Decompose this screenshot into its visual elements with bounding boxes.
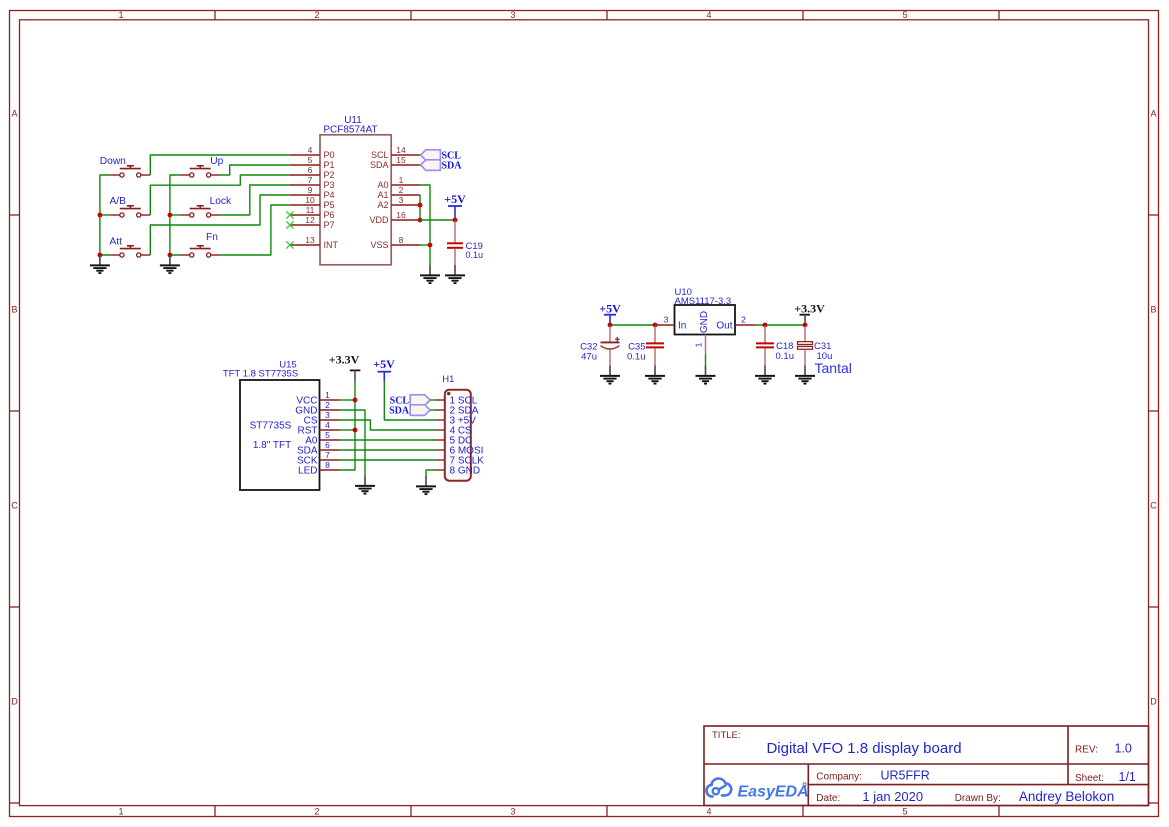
junction left rail at Att row xyxy=(98,253,103,258)
pushbutton A/B xyxy=(110,206,150,217)
ground symbol right rail xyxy=(160,255,180,273)
svg-text:7: 7 xyxy=(308,175,313,185)
wire ground rail left column (Down/A·B/Att) xyxy=(100,175,110,255)
svg-text:4: 4 xyxy=(706,10,711,20)
pushbutton Down xyxy=(110,166,150,177)
wire VDD to +5V xyxy=(420,219,455,221)
svg-text:VDD: VDD xyxy=(369,215,389,225)
svg-text:SDA: SDA xyxy=(370,160,389,170)
wire net Up to P1 (pin 5) xyxy=(220,165,290,175)
svg-text:0.1u: 0.1u xyxy=(627,352,646,363)
svg-text:14: 14 xyxy=(396,145,406,155)
svg-text:7: 7 xyxy=(325,450,330,460)
svg-text:10: 10 xyxy=(305,195,315,205)
capacitor C18 xyxy=(756,326,774,366)
connector H1 body xyxy=(445,390,471,481)
junction +5V / C19 xyxy=(453,218,458,223)
net flag SCL at H1 pin 1 xyxy=(390,395,430,407)
svg-text:4: 4 xyxy=(308,145,313,155)
svg-text:6: 6 xyxy=(308,165,313,175)
svg-text:8 GND: 8 GND xyxy=(450,465,481,476)
svg-text:9: 9 xyxy=(308,185,313,195)
junction right rail at Lock row xyxy=(168,213,173,218)
svg-text:P6: P6 xyxy=(324,210,335,220)
label Company: xyxy=(816,772,862,783)
wire net Att to P4 (pin 9) xyxy=(150,195,290,255)
wire U15 CS to H1 pin 4 xyxy=(340,420,436,430)
svg-text:Sheet:: Sheet: xyxy=(1075,773,1104,784)
svg-text:P3: P3 xyxy=(324,180,335,190)
svg-text:1: 1 xyxy=(325,390,330,400)
svg-text:5: 5 xyxy=(902,10,907,20)
svg-text:3: 3 xyxy=(510,807,515,817)
title Digital VFO 1.8 display board xyxy=(766,740,961,757)
svg-text:H1: H1 xyxy=(442,374,454,385)
pushbutton Fn xyxy=(180,246,220,257)
svg-text:1/1: 1/1 xyxy=(1119,770,1136,784)
wire A0 to ground xyxy=(420,185,430,265)
capacitor C32 (electrolytic) xyxy=(601,326,620,366)
svg-text:1.8" TFT: 1.8" TFT xyxy=(253,440,291,451)
svg-text:15: 15 xyxy=(396,155,406,165)
wire H1 pin 8 to ground xyxy=(426,470,435,476)
svg-text:5: 5 xyxy=(325,430,330,440)
svg-text:3: 3 xyxy=(664,314,669,324)
IC U10 AMS1117-3.3 body xyxy=(675,305,736,335)
svg-text:Andrey Belokon: Andrey Belokon xyxy=(1019,789,1114,804)
svg-text:INT: INT xyxy=(324,240,339,250)
svg-text:ST7735S: ST7735S xyxy=(250,421,292,432)
label C32 xyxy=(580,341,597,352)
svg-text:SDA: SDA xyxy=(442,161,463,172)
svg-text:EasyEDA: EasyEDA xyxy=(738,783,809,800)
wire net Down to P0 (pin 4) xyxy=(150,155,290,175)
svg-text:2: 2 xyxy=(741,314,746,324)
label Drawn By: xyxy=(955,793,1001,804)
U15 pins 1-8 (VCC,GND,CS,RST,A0,SDA,SCK,LED) xyxy=(295,390,339,477)
svg-text:SDA: SDA xyxy=(389,406,410,417)
wire +5V to H1 pin 3 xyxy=(384,381,435,420)
IC U15 TFT body xyxy=(240,380,320,490)
junction A1 rail to VDD wire xyxy=(418,218,423,223)
wire SDA flag to H1 pin 2 xyxy=(430,409,435,411)
wire U15 GND to ground xyxy=(340,410,366,476)
value 0.1u xyxy=(466,250,484,260)
junction +3.3V at VCC xyxy=(353,398,358,403)
ground symbol C31 xyxy=(795,366,815,384)
U15 text ST7735S xyxy=(250,421,292,432)
label C35 xyxy=(628,341,645,352)
svg-text:A/B: A/B xyxy=(110,196,127,207)
svg-text:C: C xyxy=(1150,500,1157,510)
no-connect X on pin 13 (INT) xyxy=(286,241,293,248)
svg-text:Lock: Lock xyxy=(210,196,232,207)
svg-text:B: B xyxy=(1150,304,1156,314)
wire U15 A0 to H1 pin 5 DC xyxy=(340,439,436,441)
label Tantal xyxy=(815,360,852,376)
label Sheet: xyxy=(1075,773,1104,784)
svg-text:Att: Att xyxy=(110,236,123,247)
U10 pin 1 GND xyxy=(694,311,711,355)
U10 reference designator xyxy=(675,287,692,298)
junction +5V / C32 xyxy=(608,323,613,328)
svg-text:Digital VFO 1.8 display board: Digital VFO 1.8 display board xyxy=(766,740,961,757)
label Att xyxy=(110,236,123,247)
junction C18 / Out xyxy=(763,323,768,328)
power flag +3.3V at U10 output xyxy=(794,301,825,325)
capacitor C35 xyxy=(646,326,664,366)
U11 left pins 4,5,6,7,9,10,11,12 (P0-P7) and 13 (INT) xyxy=(290,145,339,250)
label Down xyxy=(100,156,126,167)
ground symbol C32 xyxy=(600,366,620,384)
ground symbol C18 xyxy=(755,366,775,384)
svg-text:P0: P0 xyxy=(324,150,335,160)
wire U15 SDA to H1 pin 6 MOSI xyxy=(340,449,436,451)
wire net A/B to P2 (pin 6) xyxy=(150,175,290,215)
svg-text:16: 16 xyxy=(396,210,406,220)
value 0.1u (C18) xyxy=(776,351,795,362)
U11 right pins 14,15 (SCL,SDA), 1,2,3 (A0,A1,A2), 16 (VDD), 8 (VSS) xyxy=(369,145,420,250)
H1 pins 1-8 (SCL,SDA,+5V,CS,DC,MOSI,SCLK,GND) xyxy=(435,395,484,476)
U15 value TFT 1.8 ST7735S xyxy=(223,369,298,380)
svg-text:UR5FFR: UR5FFR xyxy=(881,769,930,783)
svg-text:1 jan 2020: 1 jan 2020 xyxy=(862,789,923,804)
ground symbol C19 xyxy=(445,265,465,283)
svg-text:A: A xyxy=(11,108,17,118)
svg-text:+3.3V: +3.3V xyxy=(794,301,825,315)
U15 text 1.8 inch TFT xyxy=(253,440,291,451)
label Lock xyxy=(210,196,232,207)
label C18 xyxy=(776,341,793,352)
ground symbol C35 xyxy=(645,366,665,384)
svg-text:A: A xyxy=(1150,108,1156,118)
net flag SDA at U11 pin 15 xyxy=(421,160,463,172)
wire +5V input rail xyxy=(610,324,655,326)
junction VSS/A0 ground rail xyxy=(428,243,433,248)
no-connect X on pin 11 (P6) xyxy=(286,211,293,218)
svg-text:A0: A0 xyxy=(377,180,388,190)
svg-text:In: In xyxy=(678,321,686,332)
svg-text:2: 2 xyxy=(325,400,330,410)
svg-text:P7: P7 xyxy=(324,220,335,230)
value 47u xyxy=(581,352,597,363)
ground symbol left rail xyxy=(90,255,110,273)
value Andrey Belokon xyxy=(1019,789,1114,804)
svg-text:1: 1 xyxy=(118,10,123,20)
svg-text:TITLE:: TITLE: xyxy=(712,730,741,741)
U11 value PCF8574AT xyxy=(323,125,377,136)
svg-text:3: 3 xyxy=(510,10,515,20)
junction +3.3V at RST xyxy=(353,428,358,433)
label C31 xyxy=(814,341,831,352)
power flag +5V at U10 input xyxy=(599,301,621,325)
label Fn xyxy=(206,232,218,243)
junction right rail at Fn row xyxy=(168,253,173,258)
wire net Lock to P3 (pin 7) xyxy=(220,185,290,215)
svg-text:5: 5 xyxy=(902,807,907,817)
value UR5FFR xyxy=(881,769,930,783)
net flag SDA at H1 pin 2 xyxy=(389,405,430,417)
svg-text:4: 4 xyxy=(325,420,330,430)
svg-text:47u: 47u xyxy=(581,352,597,363)
svg-text:Fn: Fn xyxy=(206,232,218,243)
svg-text:0.1u: 0.1u xyxy=(776,351,795,362)
capacitor C19 xyxy=(447,221,463,265)
svg-text:C: C xyxy=(11,500,18,510)
svg-text:Up: Up xyxy=(210,156,223,167)
wire A1-A2-VDD tie xyxy=(419,195,421,220)
svg-text:GND: GND xyxy=(699,311,710,333)
svg-text:Down: Down xyxy=(100,156,126,167)
svg-text:P4: P4 xyxy=(324,190,335,200)
svg-text:2: 2 xyxy=(314,10,319,20)
value 10u xyxy=(817,351,833,362)
pushbutton Att xyxy=(110,246,150,257)
capacitor C31 (tantalum) xyxy=(798,326,813,366)
pushbutton Lock xyxy=(180,206,220,217)
ground symbol U15 GND xyxy=(355,476,375,494)
U11 reference designator xyxy=(344,115,362,126)
label A/B xyxy=(110,196,127,207)
pushbutton Up xyxy=(180,166,220,177)
svg-text:Out: Out xyxy=(716,321,732,332)
svg-text:13: 13 xyxy=(305,235,315,245)
svg-text:Date:: Date: xyxy=(816,793,840,804)
junction C31 / +3.3V xyxy=(803,323,808,328)
svg-text:1.0: 1.0 xyxy=(1115,742,1132,756)
wire SCL flag to H1 pin 1 xyxy=(430,399,435,401)
svg-text:+5V: +5V xyxy=(373,357,395,371)
svg-text:REV:: REV: xyxy=(1075,745,1098,756)
svg-text:AMS1117-3.3: AMS1117-3.3 xyxy=(675,296,732,307)
svg-text:D: D xyxy=(11,696,18,706)
ground symbol H1 GND xyxy=(416,476,436,494)
svg-text:4: 4 xyxy=(706,807,711,817)
title block frame xyxy=(704,726,1149,806)
svg-text:11: 11 xyxy=(306,205,315,215)
IC U11 PCF8574AT body xyxy=(320,135,391,265)
H1 reference designator xyxy=(442,374,454,385)
power flag +5V at H1 xyxy=(373,357,395,381)
svg-text:A1: A1 xyxy=(377,190,388,200)
svg-text:1: 1 xyxy=(399,175,404,185)
svg-text:PCF8574AT: PCF8574AT xyxy=(323,125,377,136)
svg-text:P1: P1 xyxy=(324,160,335,170)
label Up xyxy=(210,156,223,167)
svg-text:A2: A2 xyxy=(377,200,388,210)
net flag SCL at U11 pin 14 xyxy=(421,150,462,162)
svg-text:Drawn By:: Drawn By: xyxy=(955,793,1001,804)
U10 pin 3 In xyxy=(655,314,686,331)
svg-text:6: 6 xyxy=(325,440,330,450)
wire U10 Out rail xyxy=(756,324,806,326)
power flag +5V at U11 xyxy=(444,192,466,220)
svg-text:1: 1 xyxy=(694,342,704,347)
svg-text:VSS: VSS xyxy=(370,240,388,250)
power flag +3.3V at U15 xyxy=(329,353,361,381)
value 1 jan 2020 xyxy=(862,789,923,804)
junction A2 pin xyxy=(418,203,423,208)
wire +3.3V rail to VCC/RST/LED xyxy=(340,380,356,470)
svg-text:3: 3 xyxy=(325,410,330,420)
value 1/1 xyxy=(1119,770,1136,784)
svg-text:1: 1 xyxy=(118,807,123,817)
U10 pin 2 Out xyxy=(716,314,755,331)
svg-text:TFT 1.8 ST7735S: TFT 1.8 ST7735S xyxy=(223,369,298,380)
svg-text:B: B xyxy=(11,304,17,314)
junction C35 / U10 In xyxy=(653,323,658,328)
ground symbol U10 GND xyxy=(696,366,716,384)
EasyEDA logo xyxy=(707,779,809,801)
svg-text:+5V: +5V xyxy=(444,192,466,206)
svg-text:0.1u: 0.1u xyxy=(466,250,484,260)
svg-text:Tantal: Tantal xyxy=(815,360,852,376)
junction left rail at A/B row xyxy=(98,213,103,218)
svg-text:3: 3 xyxy=(399,195,404,205)
svg-text:8: 8 xyxy=(325,460,330,470)
svg-text:Company:: Company: xyxy=(816,772,862,783)
U15 reference designator xyxy=(279,360,296,371)
svg-text:D: D xyxy=(1150,696,1157,706)
svg-text:P2: P2 xyxy=(324,170,335,180)
ground symbol A0/VSS xyxy=(420,265,440,283)
svg-text:P5: P5 xyxy=(324,200,335,210)
label TITLE: xyxy=(712,730,741,741)
svg-text:12: 12 xyxy=(305,215,315,225)
svg-text:SCL: SCL xyxy=(371,150,389,160)
wire net Fn to P5 (pin 10) xyxy=(220,205,290,255)
value 1.0 xyxy=(1115,742,1132,756)
label REV: xyxy=(1075,745,1098,756)
wire U10 GND pin to ground xyxy=(705,355,707,366)
wire ground rail right column (Up/Lock/Fn) xyxy=(170,175,180,255)
value 0.1u (C35) xyxy=(627,352,646,363)
label Date: xyxy=(816,793,840,804)
wire U15 SCK to H1 pin 7 SCLK xyxy=(340,459,436,461)
label C19 xyxy=(466,241,483,252)
U10 value AMS1117-3.3 xyxy=(675,296,732,307)
svg-text:2: 2 xyxy=(399,185,404,195)
svg-text:5: 5 xyxy=(308,155,313,165)
wire VSS to ground rail xyxy=(420,244,430,246)
svg-text:8: 8 xyxy=(399,235,404,245)
no-connect X on pin 12 (P7) xyxy=(286,221,293,228)
svg-text:+3.3V: +3.3V xyxy=(329,353,360,367)
svg-text:2: 2 xyxy=(314,807,319,817)
svg-text:+5V: +5V xyxy=(599,301,621,315)
svg-text:LED: LED xyxy=(298,465,317,476)
